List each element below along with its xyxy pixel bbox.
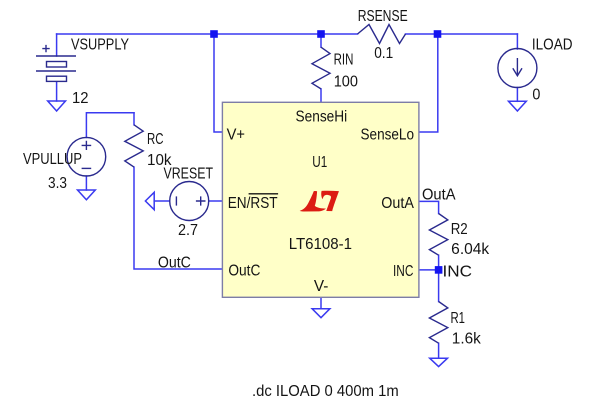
svg-text:SenseLo: SenseLo [361,126,415,143]
svg-text:SenseHi: SenseHi [296,108,348,125]
svg-text:LT6108-1: LT6108-1 [289,236,352,253]
svg-text:OutA: OutA [381,195,414,212]
svg-text:3.3: 3.3 [48,175,67,192]
svg-text:6.04k: 6.04k [451,241,489,258]
svg-text:ILOAD: ILOAD [532,36,573,53]
svg-text:OutA: OutA [422,187,456,204]
svg-text:OutC: OutC [158,255,191,272]
svg-text:0: 0 [532,86,540,103]
svg-text:.dc ILOAD 0 400m 1m: .dc ILOAD 0 400m 1m [252,383,399,400]
svg-text:R2: R2 [451,221,468,238]
svg-text:OutC: OutC [228,263,260,280]
svg-text:100: 100 [334,73,359,90]
svg-text:INC: INC [393,263,413,280]
svg-text:RC: RC [147,131,164,148]
svg-text:V+: V+ [227,127,245,144]
svg-text:INC: INC [443,264,473,281]
svg-text:EN/RST: EN/RST [228,195,278,212]
svg-text:U1: U1 [312,154,327,171]
svg-text:0.1: 0.1 [374,45,393,62]
svg-text:V-: V- [314,278,329,295]
svg-text:12: 12 [72,90,89,107]
svg-text:VSUPPLY: VSUPPLY [71,37,129,54]
svg-text:RSENSE: RSENSE [358,8,408,25]
svg-text:1.6k: 1.6k [452,330,481,347]
svg-text:VRESET: VRESET [164,166,214,183]
svg-text:2.7: 2.7 [178,222,198,239]
svg-text:RIN: RIN [334,52,354,69]
svg-text:VPULLUP: VPULLUP [23,151,82,168]
svg-text:R1: R1 [451,310,466,327]
